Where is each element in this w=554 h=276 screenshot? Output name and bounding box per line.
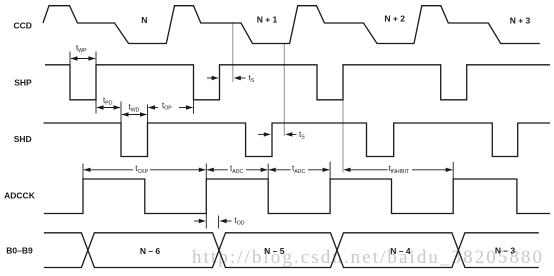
- svg-text:N – 5: N – 5: [264, 246, 285, 256]
- svg-text:SHP: SHP: [14, 78, 32, 88]
- svg-text:N – 6: N – 6: [140, 246, 161, 256]
- svg-text:http://blog.csdn.net/baidu_382: http://blog.csdn.net/baidu_38205880: [192, 247, 542, 268]
- svg-text:ADCCK: ADCCK: [4, 191, 36, 201]
- svg-text:CCD: CCD: [13, 21, 31, 31]
- svg-text:B0–B9: B0–B9: [6, 246, 33, 256]
- svg-text:SHD: SHD: [14, 134, 32, 144]
- svg-text:N – 4: N – 4: [390, 246, 411, 256]
- svg-text:N + 3: N + 3: [510, 16, 531, 26]
- svg-text:N: N: [141, 15, 147, 25]
- svg-text:N + 1: N + 1: [257, 15, 278, 25]
- svg-text:N + 2: N + 2: [384, 14, 405, 24]
- svg-text:N – 3: N – 3: [495, 246, 516, 256]
